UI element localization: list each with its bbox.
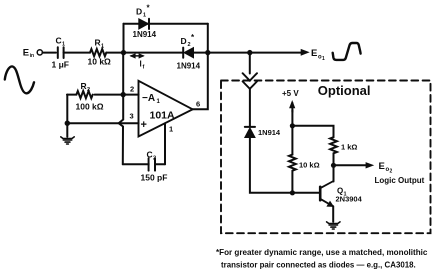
svg-text:−A: −A <box>142 93 155 104</box>
waveform Eo1 sketch <box>333 43 361 60</box>
svg-text:2: 2 <box>130 85 134 94</box>
footnote line 1 <box>216 248 428 257</box>
svg-text:1: 1 <box>62 42 65 48</box>
wire chevron to clamp diode <box>249 89 251 127</box>
svg-text:1N914: 1N914 <box>177 62 201 71</box>
sine wave input symbol <box>5 66 34 93</box>
node ground tie <box>65 121 70 126</box>
svg-text:1: 1 <box>157 99 161 105</box>
wire summing vertical down to C2 with crossover kink <box>119 95 124 165</box>
feedback loop top wire <box>124 23 208 25</box>
ground symbol emitter <box>327 222 340 229</box>
svg-text:E: E <box>23 47 29 58</box>
resistor 10k <box>289 155 296 171</box>
label minus A1 <box>142 93 161 105</box>
+5V supply arrow <box>289 100 295 112</box>
svg-text:*: * <box>147 4 151 13</box>
svg-text:Logic Output: Logic Output <box>375 176 425 185</box>
wire optional tap down to chevron <box>249 53 251 74</box>
svg-text:f: f <box>143 65 145 71</box>
wire 1k branch top <box>292 126 333 137</box>
wire Eo2 output <box>334 164 368 166</box>
svg-text:10 kΩ: 10 kΩ <box>88 57 112 67</box>
svg-text:*: * <box>191 33 195 42</box>
label R1 <box>95 38 105 50</box>
label Eo2 <box>379 161 393 175</box>
svg-text:150 pF: 150 pF <box>141 173 168 183</box>
svg-text:C: C <box>56 36 62 46</box>
svg-text:1: 1 <box>143 13 146 19</box>
svg-text:transistor pair connected as d: transistor pair connected as diodes — e.… <box>221 261 416 270</box>
wire diode to base rail <box>250 138 320 193</box>
label Ein <box>23 47 34 58</box>
wire +5V rail to 10k <box>291 110 293 155</box>
resistor R2 <box>76 91 92 98</box>
current arrow If <box>129 53 144 58</box>
svg-text:*For greater dynamic range, us: *For greater dynamic range, use a matche… <box>216 248 428 257</box>
wire R2 left down to ground node <box>66 95 68 124</box>
wire summing node down to pin2 <box>122 53 124 95</box>
svg-text:2N3904: 2N3904 <box>336 195 363 204</box>
diode D2 <box>183 48 193 58</box>
wire 1k bottom to collector node <box>333 153 335 165</box>
feedback loop right vertical wire <box>207 24 209 53</box>
svg-text:R: R <box>95 38 101 48</box>
svg-text:R: R <box>81 81 87 91</box>
svg-text:C: C <box>147 150 153 160</box>
svg-text:in: in <box>30 53 34 59</box>
arrowhead Eo2 <box>366 162 375 168</box>
svg-text:2: 2 <box>153 156 156 162</box>
node 1k tap <box>290 123 295 128</box>
svg-text:1: 1 <box>169 125 173 134</box>
svg-text:2: 2 <box>390 169 393 175</box>
resistor R1 <box>90 49 106 56</box>
capacitor C2 <box>149 158 155 170</box>
label If <box>140 60 145 71</box>
label D2 <box>181 33 196 48</box>
svg-text:1N914: 1N914 <box>133 30 157 39</box>
wire Ein to C1 <box>43 52 56 54</box>
wire C1 to R1 <box>64 52 90 54</box>
wire 10k bottom to rail junction <box>291 171 293 193</box>
diode D1 <box>139 19 149 29</box>
node base rail junction <box>290 190 295 195</box>
svg-text:+5 V: +5 V <box>282 89 299 98</box>
svg-text:100 kΩ: 100 kΩ <box>76 102 104 112</box>
svg-text:1: 1 <box>101 44 104 50</box>
node Ein terminal <box>37 50 42 55</box>
svg-text:I: I <box>140 60 142 69</box>
node op-amp output tie <box>205 50 210 55</box>
wire R2 left end <box>67 94 76 96</box>
svg-text:D: D <box>136 7 142 17</box>
svg-text:E: E <box>311 48 317 59</box>
resistor 1k <box>330 137 337 153</box>
svg-text:10 kΩ: 10 kΩ <box>299 160 320 169</box>
label Eo1 <box>311 48 325 62</box>
optional dashed box <box>221 81 431 234</box>
ground symbol input <box>61 137 74 144</box>
svg-text:3: 3 <box>130 112 134 121</box>
wire D2 to loop corner <box>194 52 208 54</box>
wire pin3 line <box>67 122 138 124</box>
wire main line node to D2 <box>124 52 184 54</box>
capacitor C1 <box>58 47 64 58</box>
wire R1 to summing node <box>106 52 123 54</box>
label D1 <box>136 4 151 19</box>
wire C2 bottom <box>123 163 165 165</box>
wire ground stub <box>66 123 68 137</box>
svg-text:101A: 101A <box>150 109 176 121</box>
label R2 <box>81 81 91 93</box>
svg-text:1 μF: 1 μF <box>52 60 69 70</box>
svg-text:Optional: Optional <box>318 83 371 98</box>
svg-text:D: D <box>181 36 187 46</box>
wire pin6 output <box>193 53 208 110</box>
svg-text:6: 6 <box>196 100 200 109</box>
label C2 <box>147 150 157 162</box>
node collector junction <box>331 163 336 168</box>
wire pin2 line to op-amp <box>95 94 139 96</box>
wire pin1 down <box>164 123 166 164</box>
svg-text:2: 2 <box>87 87 90 93</box>
svg-text:E: E <box>379 161 385 172</box>
transistor Q1 <box>320 165 334 207</box>
svg-text:2: 2 <box>188 42 191 48</box>
node pin2 junction <box>121 92 126 97</box>
wire emitter to ground <box>332 206 334 222</box>
svg-text:1: 1 <box>322 56 325 62</box>
node summing junction <box>121 50 126 55</box>
feedback loop left vertical wire <box>123 24 125 53</box>
diode clamp 1N914 <box>245 127 255 138</box>
node optional tap <box>247 50 252 55</box>
arrowhead Eo1 <box>301 49 310 56</box>
chevron break symbol <box>243 73 257 89</box>
label Q1 <box>337 187 347 198</box>
svg-text:1N914: 1N914 <box>258 128 281 137</box>
svg-text:1 kΩ: 1 kΩ <box>341 143 357 152</box>
label C1 <box>56 36 66 48</box>
svg-text:+: + <box>141 119 147 131</box>
wire output line to Eo1 arrow <box>208 52 303 54</box>
op-amp U1 triangle <box>139 81 193 137</box>
